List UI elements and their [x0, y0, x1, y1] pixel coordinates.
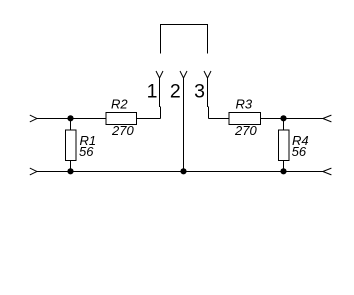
svg-text:56: 56 — [79, 144, 94, 159]
svg-text:R3: R3 — [236, 97, 253, 112]
svg-text:3: 3 — [194, 80, 205, 102]
svg-text:270: 270 — [111, 123, 134, 138]
svg-text:56: 56 — [292, 144, 307, 159]
svg-text:R2: R2 — [111, 97, 128, 112]
svg-text:1: 1 — [147, 80, 158, 102]
svg-text:2: 2 — [170, 80, 181, 102]
svg-text:270: 270 — [234, 123, 257, 138]
